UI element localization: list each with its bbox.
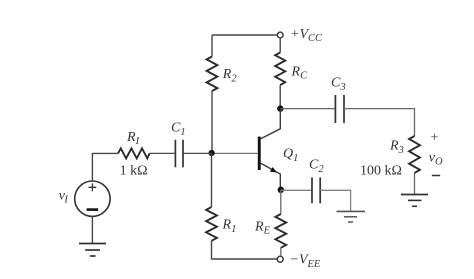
wire R2 bottom to base node	[211, 91, 213, 153]
source vI plus sign	[89, 183, 97, 191]
label C3	[331, 76, 346, 94]
label RC	[291, 65, 309, 82]
wire emitter node down to RE	[280, 190, 282, 214]
wire C3 to R3 top	[344, 109, 415, 136]
+VCC terminal circle	[277, 32, 283, 38]
resistor R1	[206, 207, 217, 241]
label RI	[126, 130, 140, 147]
resistor RC	[275, 53, 285, 86]
label -VEE	[290, 253, 321, 270]
label R3	[389, 139, 404, 157]
label vI	[59, 189, 69, 206]
wire base node down to R1	[211, 153, 213, 207]
label vO	[429, 151, 443, 168]
resistor R2	[207, 57, 218, 92]
label R2	[222, 67, 238, 85]
svg-text:1 kΩ: 1 kΩ	[120, 164, 148, 179]
ground under C2	[337, 211, 366, 222]
source vI circle	[75, 181, 110, 216]
capacitor C3	[335, 95, 344, 123]
svg-text:100 kΩ: 100 kΩ	[360, 164, 402, 179]
wire RC bottom to collector node	[279, 85, 281, 109]
label RE	[254, 220, 271, 237]
wire RC top from terminal	[279, 38, 281, 53]
wire base node to transistor base	[212, 152, 258, 154]
label C2	[309, 158, 324, 176]
wire emitter node to C2	[281, 189, 312, 191]
wire collector node to C3	[280, 108, 335, 110]
label 1 kOhm	[120, 164, 148, 179]
resistor RE	[275, 214, 286, 248]
wire RI to C1	[150, 152, 176, 154]
label Q1	[283, 147, 298, 165]
label +VCC	[290, 27, 323, 44]
svg-text:+: +	[431, 131, 439, 146]
source vI minus bar	[87, 208, 99, 211]
node collector junction dot	[277, 105, 283, 111]
wire R1 bottom to bottom rail	[212, 241, 278, 259]
label minus of vO	[432, 175, 440, 177]
wire C1 to base node	[183, 152, 212, 154]
wire vI bottom to ground	[91, 216, 93, 243]
wire C2 to ground	[320, 190, 350, 211]
ground under vI	[79, 244, 106, 257]
label C1	[171, 121, 186, 139]
node emitter junction dot	[278, 187, 284, 193]
wire top rail from R2 top to +VCC terminal	[212, 34, 277, 36]
wire vI top to RI	[92, 153, 118, 181]
capacitor C2	[312, 177, 320, 203]
wire RE bottom to -VEE terminal	[280, 248, 282, 256]
capacitor C1	[175, 140, 183, 167]
-VEE terminal circle	[277, 256, 283, 262]
wire R3 bottom to ground	[414, 173, 416, 195]
resistor RI (horizontal)	[118, 148, 150, 158]
node base junction dot	[209, 150, 215, 156]
label 100 kOhm	[360, 164, 402, 179]
resistor R3	[409, 136, 420, 173]
transistor Q1 emitter lead with arrow	[261, 163, 281, 190]
label + of vO	[431, 131, 439, 146]
transistor Q1 collector lead	[261, 109, 281, 139]
ground under R3	[401, 195, 428, 207]
wire R2 top vertical	[211, 35, 213, 57]
transistor Q1 base bar	[258, 137, 261, 170]
label R1	[222, 218, 237, 236]
